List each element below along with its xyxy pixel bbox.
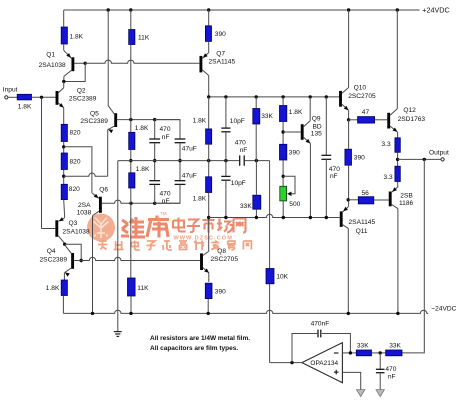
svg-text:Q7: Q7 [216, 51, 225, 58]
svg-text:56: 56 [362, 190, 370, 197]
wire +24V top rail [64, 9, 420, 11]
Q7 emitter diagonal [202, 53, 208, 59]
svg-text:Q3: Q3 [69, 220, 78, 227]
resistor 11K upper [129, 30, 135, 45]
svg-text:1.8K: 1.8K [193, 196, 207, 203]
junction y97 x310 [309, 95, 312, 98]
svg-text:TM: TM [160, 211, 167, 216]
svg-text:1.8K: 1.8K [135, 125, 149, 132]
Q4 base wire [74, 260, 81, 262]
wire 56 to 2SB1186 base [374, 199, 389, 201]
wire 2SB1186 collector to bottom rail [397, 209, 399, 314]
wire 470nF d to bias row [325, 159, 327, 217]
junction rail Q6 collector [91, 312, 94, 315]
watermark text 专业电子元器件交易网站 [98, 241, 251, 251]
transistor Q4 2SC2389 [71, 253, 74, 269]
ground column [117, 161, 119, 332]
junction servo RC [379, 351, 382, 354]
capacitor 47uF b [175, 180, 186, 182]
output terminal [441, 158, 444, 161]
wire to Q3 base [42, 228, 56, 230]
junction y97 x283 [281, 95, 284, 98]
svg-text:All capacitors are film types.: All capacitors are film types. [150, 345, 238, 352]
wire 3.3 lower to 2SB1186 emitter [397, 182, 399, 188]
wire Q11 collector to bottom rail [347, 228, 349, 313]
svg-text:11K: 11K [137, 285, 149, 292]
junction bottom wire / 1.8K column [129, 202, 132, 205]
wire Q2 collector up [63, 82, 65, 88]
watermark text 电子市场网 [173, 217, 246, 233]
svg-text:1.8K: 1.8K [70, 34, 84, 41]
resistor 820 b [61, 153, 67, 170]
wire output node [398, 158, 441, 160]
svg-text:33K: 33K [389, 343, 401, 350]
junction top rail / Q5 collector column [107, 8, 110, 11]
svg-text:500: 500 [289, 201, 300, 208]
svg-text:Q10: Q10 [354, 85, 367, 92]
svg-text:2SB: 2SB [400, 193, 413, 200]
Q11 collector diagonal [343, 225, 349, 229]
svg-text:2SA1145: 2SA1145 [209, 59, 236, 66]
transistor Q12 2SD1763 [387, 113, 390, 129]
svg-text:nF: nF [162, 198, 170, 205]
input terminal [5, 96, 8, 99]
junction y97 x326 [325, 95, 328, 98]
wire up to Q5 emitter [107, 130, 109, 177]
wire Q1 collector down [63, 76, 65, 81]
capacitor 10pF b [221, 175, 230, 177]
wire 1.8K to bottom rail [62, 296, 64, 314]
wire 1.8K d down to Q8 collector [208, 193, 210, 252]
junction mid wire x226 [224, 159, 227, 162]
wire Q1 base-collector tie [64, 63, 85, 81]
Q12 collector diagonal [390, 109, 397, 115]
wire 390 to Q7 emitter [208, 41, 210, 52]
wire Q3 collector to Q4 base node [65, 244, 82, 260]
junction Q1 base tie [84, 62, 87, 65]
watermark text 维库 [121, 216, 169, 238]
svg-text:11K: 11K [138, 35, 150, 42]
wire 470nF b to bottom wire [154, 184, 156, 203]
Q2 emitter diagonal [58, 103, 63, 108]
resistor 3.3 upper [395, 138, 400, 153]
watermark stamp logo [87, 214, 115, 242]
junction top rail / Q12 collector [396, 8, 399, 11]
junction y97 x256 [255, 95, 258, 98]
svg-text:470: 470 [160, 126, 171, 133]
svg-text:Q5: Q5 [90, 110, 99, 117]
svg-text:470: 470 [160, 190, 171, 197]
resistor 1.8K Q4 emitter [61, 280, 67, 296]
wire to 1.8K c [208, 97, 210, 129]
capacitor 470nF servo [379, 353, 381, 369]
svg-text:Q11: Q11 [356, 228, 368, 235]
junction input node [40, 96, 43, 99]
svg-text:135: 135 [311, 130, 322, 137]
wire op-amp non-inverting input [342, 372, 360, 389]
capacitor 470nF a [149, 138, 160, 140]
wire 3.3 to output node [397, 152, 399, 166]
svg-text:Input: Input [3, 86, 18, 93]
resistor 820 c [61, 184, 67, 199]
Q3 emitter arrow (PNP) [59, 217, 64, 221]
transistor Q3 2SA1038 [55, 220, 58, 237]
transistor Q2 2SC2389 [56, 91, 59, 105]
svg-text:2SC2389: 2SC2389 [69, 96, 97, 103]
Q6 collector diagonal [93, 211, 99, 215]
svg-text:470: 470 [329, 166, 340, 173]
svg-text:390: 390 [215, 289, 226, 296]
svg-text:All resistors are 1/4W metal f: All resistors are 1/4W metal film. [150, 335, 250, 342]
wire Q2 emitter to 820 [63, 108, 65, 125]
wire 390 lower to bottom rail [207, 299, 209, 314]
Q6 emitter arrow (PNP) [94, 194, 99, 198]
wire Q7 collector down [208, 76, 210, 97]
resistor 390 lower [205, 283, 212, 298]
wire Q6 collector to bottom rail [92, 216, 94, 314]
wire junction to Q6 emitter [64, 147, 92, 194]
junction pot top [282, 175, 285, 178]
wire 1.8K a to 1.8K b [130, 150, 132, 173]
capacitor 470nF servo plates [376, 368, 385, 370]
junction feedback node [290, 361, 293, 364]
resistor 3.3 lower [395, 166, 400, 181]
wire Q6 base to cap box bottom (hop over ground column) [102, 200, 180, 203]
Q4 emitter arrow (NPN) [65, 272, 70, 276]
wire cap to ground arrow [379, 373, 381, 390]
svg-text:2SC2705: 2SC2705 [348, 93, 376, 100]
svg-text:33K: 33K [240, 203, 252, 210]
transistor Q9 BD135 [301, 124, 304, 140]
wire 47uF b to bottom wire [155, 184, 180, 203]
Q11 emitter diagonal [343, 207, 349, 212]
svg-text:1.8K: 1.8K [136, 166, 150, 173]
wire Q12 emitter to 3.3 [397, 132, 399, 138]
pot wiper arrow [287, 192, 291, 197]
Q12 emitter diagonal [390, 126, 397, 132]
svg-text:Q9: Q9 [312, 116, 321, 123]
wire 820c to Q3 emitter [63, 200, 66, 218]
capacitor 10pF a [221, 127, 230, 129]
junction Q10 emitter node [347, 118, 350, 121]
junction mid wire x208.7 [207, 159, 210, 162]
svg-text:OPA2134: OPA2134 [310, 360, 338, 367]
junction mid wire x155 [153, 159, 156, 162]
wire output sense down to servo [423, 159, 425, 309]
wire 33K upper to mid wire [255, 124, 257, 161]
wire 47uF a to 47uF b [179, 143, 181, 181]
junction rail 11K lower [129, 312, 132, 315]
wire Q1 base to junction [74, 62, 85, 64]
wire mid row to op-amp output column [269, 161, 271, 363]
svg-text:390: 390 [215, 31, 226, 38]
svg-text:1.8K: 1.8K [193, 117, 207, 124]
svg-text:820: 820 [70, 130, 81, 137]
resistor 33K servo a [356, 350, 371, 356]
wire 11K lower to bottom rail [130, 296, 132, 313]
junction bias row x310 [309, 216, 312, 219]
capacitor 470nF c [239, 155, 241, 165]
transistor Q1 2SA1038 [71, 57, 74, 71]
wire Q10 emitter down [348, 110, 350, 120]
svg-text:nF: nF [388, 373, 396, 380]
svg-text:1186: 1186 [399, 200, 414, 207]
svg-text:Q12: Q12 [403, 107, 416, 114]
wire feedback loop [292, 334, 317, 363]
wire Q7 collector row to Q10 base [209, 96, 339, 98]
Q4 emitter diagonal [65, 268, 72, 273]
resistor 1.8K b [129, 173, 135, 188]
wire 11K to Q5 base node [130, 45, 132, 120]
junction mid wire x180 [178, 159, 181, 162]
resistor 10K [266, 269, 274, 284]
svg-text:nF: nF [240, 147, 248, 154]
Q5 emitter arrow (NPN) [108, 129, 113, 133]
ground arrow at non-inverting input [357, 390, 365, 397]
svg-text:10pF: 10pF [230, 118, 245, 125]
ground symbol [114, 331, 122, 333]
svg-text:2SC2389: 2SC2389 [40, 257, 68, 264]
wire rail to Q5 collector [107, 10, 109, 106]
junction top rail / Q10 collector [347, 8, 350, 11]
resistor 390 c [280, 144, 287, 160]
junction rail 390 lower [207, 312, 210, 315]
svg-text:47uF: 47uF [182, 146, 197, 153]
op-amp plus sign [334, 371, 339, 373]
junction output node [396, 158, 399, 161]
wire 1.8K to Q1 emitter [63, 44, 65, 50]
transistor Q11 2SA1145 [340, 211, 343, 227]
wire junction to Q5 emitter (hop) [64, 173, 108, 176]
Q7 emitter arrow (PNP) [203, 53, 208, 58]
wire -24V bottom rail [63, 310, 428, 313]
junction output sense tap [423, 158, 426, 161]
wire input node down to Q3 base [41, 97, 43, 228]
wire [64, 242, 66, 245]
junction base wire / 11K column [129, 118, 132, 121]
svg-text:1.8K: 1.8K [18, 104, 32, 111]
junction top rail / 11K column [129, 8, 132, 11]
2SB1186 collector diagonal [392, 205, 398, 209]
wire to 10pF a [225, 97, 227, 128]
svg-text:2SA1145: 2SA1145 [349, 219, 376, 226]
svg-text:Output: Output [429, 149, 449, 156]
Q10 emitter diagonal [342, 104, 349, 110]
wire 1.8K e to 390 [282, 122, 284, 145]
wire to Q2 base [32, 96, 56, 98]
Q10 collector diagonal [342, 88, 349, 94]
junction 820a/820b [62, 145, 65, 148]
resistor 56 [358, 197, 374, 204]
svg-text:1038: 1038 [77, 210, 92, 217]
wire Q8 emitter to 390 [208, 273, 210, 282]
Q1 emitter arrow (PNP) [66, 53, 71, 58]
svg-text:470: 470 [385, 366, 396, 373]
wire 470nF a to 470nF b [154, 143, 156, 181]
capacitor 470nF b [149, 180, 160, 182]
2SB1186 emitter diagonal [392, 187, 398, 192]
Q9 emitter arrow (NPN) [306, 139, 311, 144]
wire Q9 emitter to bias row [309, 143, 311, 217]
wire op-amp output [270, 362, 302, 364]
wire Q4 emitter to 1.8K [63, 273, 65, 280]
wire pot to bias row [282, 201, 284, 218]
wire rail to 11K [130, 10, 132, 30]
wire mid horizontal (ground reference row) [118, 160, 239, 162]
resistor 390 d [345, 149, 352, 165]
svg-text:390: 390 [354, 155, 365, 162]
resistor 33K servo b [386, 350, 402, 356]
wire to 47 [349, 119, 358, 121]
Q9 collector diagonal [304, 121, 311, 127]
svg-text:Q4: Q4 [47, 248, 56, 255]
junction mid wire x131 [129, 159, 132, 162]
junction bias row x226 [224, 216, 227, 219]
svg-text:1.8K: 1.8K [289, 109, 303, 116]
junction mid wire 33K tap [255, 159, 258, 162]
Q3 collector diagonal [58, 236, 64, 244]
junction top rail / 390 column [207, 8, 210, 11]
Q2 collector diagonal [58, 88, 63, 93]
resistor 1.8K d [206, 177, 212, 193]
svg-text:820: 820 [70, 159, 81, 166]
Q3 emitter diagonal [58, 218, 64, 222]
wire Q12 collector to rail [396, 10, 398, 109]
svg-text:47: 47 [362, 109, 370, 116]
capacitor 47uF a [175, 138, 186, 140]
svg-text:nF: nF [162, 134, 170, 141]
resistor 1.8K e [280, 106, 287, 122]
ground arrow at servo cap [376, 390, 384, 397]
op-amp U1 OPA2134 [302, 343, 343, 383]
Q1 emitter diagonal [64, 50, 72, 58]
svg-text:2SC2389: 2SC2389 [80, 118, 108, 125]
Q8 collector diagonal [203, 251, 209, 255]
Q10 emitter arrow (NPN) [344, 106, 349, 111]
junction Q1/Q2 collectors [62, 80, 65, 83]
junction 56 tap [347, 198, 350, 201]
junction 820b/820c [62, 175, 65, 178]
svg-text:−24VDC: −24VDC [431, 305, 456, 312]
wire [130, 120, 132, 133]
junction bias row x283 [282, 216, 285, 219]
resistor 11K lower [128, 278, 136, 296]
transistor Q10 2SC2705 [339, 91, 342, 107]
junction Q9 base node [281, 130, 284, 133]
svg-text:Q1: Q1 [46, 51, 55, 58]
wire bias row to Q11 base (hop) [209, 214, 340, 217]
transistor Q6 2SA1038 [99, 197, 102, 213]
resistor 33K lower [253, 195, 261, 209]
junction Q4 base node [80, 259, 83, 262]
svg-text:nF: nF [330, 173, 338, 180]
svg-text:2SC2705: 2SC2705 [211, 256, 239, 263]
resistor 1.8K input series [17, 94, 31, 100]
resistor 1.8K c [206, 129, 212, 144]
junction y97 x208.7 [207, 95, 210, 98]
resistor 47 [358, 117, 375, 124]
wire to 33K upper [255, 97, 257, 109]
Q4 collector diagonal [65, 245, 72, 254]
svg-text:10pF: 10pF [231, 180, 246, 187]
svg-text:3.3: 3.3 [382, 141, 391, 148]
wire between 33K [372, 352, 386, 354]
wire 33K lower to bias row [255, 209, 257, 217]
wire Q9 collector up [309, 97, 311, 121]
wire to Q9 base [283, 131, 301, 133]
wire 820b to 820c [63, 170, 65, 185]
svg-text:+24VDC: +24VDC [422, 6, 449, 15]
Q6 emitter diagonal [92, 193, 99, 198]
junction bias row x326 [325, 216, 328, 219]
wire 10pF a to 10pF b [225, 132, 227, 177]
wire 1.8K c to 1.8K d [208, 144, 210, 177]
Q11 emitter arrow (PNP) [343, 207, 348, 212]
wire 10pF b to bias row [225, 180, 227, 217]
wire input to R 1.8K [8, 96, 17, 98]
transistor Q7 2SA1145 [199, 56, 202, 73]
Q12 emitter arrow (NPN) [393, 128, 398, 132]
trimpot 500 body [280, 186, 287, 201]
wire 1.8K b down to 11K lower [130, 188, 132, 278]
junction x208.7 bias row [207, 216, 210, 219]
svg-text:2SA1038: 2SA1038 [39, 62, 66, 69]
wire op-amp inverting input [342, 352, 356, 354]
svg-text:1.8K: 1.8K [46, 285, 60, 292]
junction Q3 collector [63, 243, 66, 246]
junction bottom wire / 470nF [153, 202, 156, 205]
Q5 collector diagonal [108, 106, 114, 114]
Q8 emitter diagonal [203, 268, 209, 273]
Q5 emitter diagonal [108, 126, 114, 129]
wire to 56 [348, 199, 358, 201]
wire Q5 base right [117, 119, 180, 121]
svg-text:3.3: 3.3 [384, 174, 393, 181]
junction inverting input [349, 351, 352, 354]
wire top to 47uF a [155, 120, 180, 139]
Q8 emitter arrow (NPN) [204, 268, 209, 273]
svg-text:470nF: 470nF [311, 320, 330, 327]
wire rail to 1.8K [63, 10, 65, 27]
Q1 collector diagonal [64, 70, 72, 76]
svg-text:2SD1763: 2SD1763 [398, 116, 426, 123]
junction rail 2SB1186 collector [396, 312, 399, 315]
wire Q10 collector to rail [348, 10, 350, 88]
resistor 33K upper [253, 109, 260, 125]
wire rail to 390 [208, 10, 210, 26]
resistor 820 a [61, 124, 67, 141]
wire 47 to Q12 base [375, 119, 388, 121]
transistor Q5 2SC2389 [114, 113, 117, 127]
junction rail Q11 collector [347, 312, 350, 315]
wire Q4 base to Q8 base (hops) [81, 257, 200, 260]
wire to 1.8K e [282, 97, 284, 106]
resistor 1.8K a [129, 132, 135, 149]
svg-text:10K: 10K [276, 274, 288, 281]
Q9 emitter diagonal [304, 137, 311, 143]
svg-text:390: 390 [289, 150, 300, 157]
capacitor 470nF d [321, 154, 331, 156]
wire 820a to 820b [63, 142, 65, 154]
wire Q10 emitter node to 390 d [348, 120, 350, 149]
2SB1186 emitter arrow (PNP) [392, 187, 397, 192]
svg-text:Q2: Q2 [77, 88, 86, 95]
svg-text:470: 470 [235, 140, 246, 147]
junction bias row x256 [255, 216, 258, 219]
svg-text:2SA: 2SA [78, 202, 91, 209]
svg-text:Q8: Q8 [217, 248, 226, 255]
wire mid wire to 33K lower [255, 161, 257, 196]
